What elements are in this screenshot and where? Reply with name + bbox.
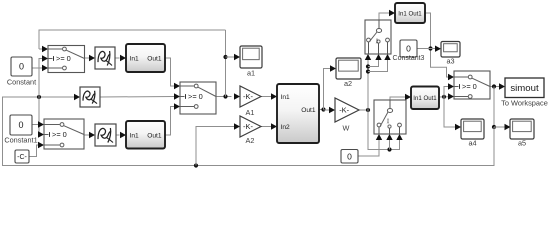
svg-text:a2: a2: [344, 79, 352, 88]
svg-text:>= 0: >= 0: [188, 92, 203, 101]
svg-text:Out1: Out1: [301, 107, 316, 114]
svg-text:>= 0: >= 0: [462, 82, 477, 91]
svg-text:In2: In2: [281, 124, 290, 131]
svg-text:0: 0: [347, 151, 352, 161]
svg-text:0: 0: [19, 62, 24, 72]
svg-text:simout: simout: [510, 83, 539, 94]
svg-text:>=: >=: [386, 118, 391, 124]
svg-text:a1: a1: [247, 69, 255, 78]
svg-text:In1 Out1: In1 Out1: [398, 10, 422, 17]
svg-text:Constant1: Constant1: [4, 136, 37, 145]
svg-text:A1: A1: [246, 108, 255, 117]
svg-text:To Workspace: To Workspace: [501, 99, 548, 108]
svg-text:Out1: Out1: [147, 132, 162, 139]
svg-text:-K-: -K-: [339, 106, 349, 115]
svg-text:a5: a5: [518, 139, 526, 148]
svg-text:>=: >=: [375, 38, 380, 44]
svg-text:>= 0: >= 0: [56, 54, 71, 63]
svg-text:-C-: -C-: [17, 154, 27, 161]
svg-text:In1: In1: [130, 55, 139, 62]
svg-text:a4: a4: [468, 139, 476, 148]
svg-text:In1: In1: [130, 132, 139, 139]
svg-text:Out1: Out1: [147, 55, 162, 62]
svg-text:In1: In1: [281, 94, 290, 101]
svg-text:Constant: Constant: [7, 78, 36, 87]
svg-text:Constant3: Constant3: [393, 55, 425, 62]
svg-text:-K-: -K-: [243, 122, 253, 131]
svg-text:0: 0: [406, 44, 411, 54]
svg-text:A2: A2: [246, 136, 255, 145]
svg-text:>= 0: >= 0: [52, 130, 67, 139]
svg-text:In1 Out1: In1 Out1: [413, 95, 437, 102]
svg-text:0: 0: [18, 120, 23, 130]
svg-text:a3: a3: [446, 57, 454, 66]
svg-text:W: W: [343, 124, 350, 133]
svg-text:-K-: -K-: [243, 92, 253, 101]
